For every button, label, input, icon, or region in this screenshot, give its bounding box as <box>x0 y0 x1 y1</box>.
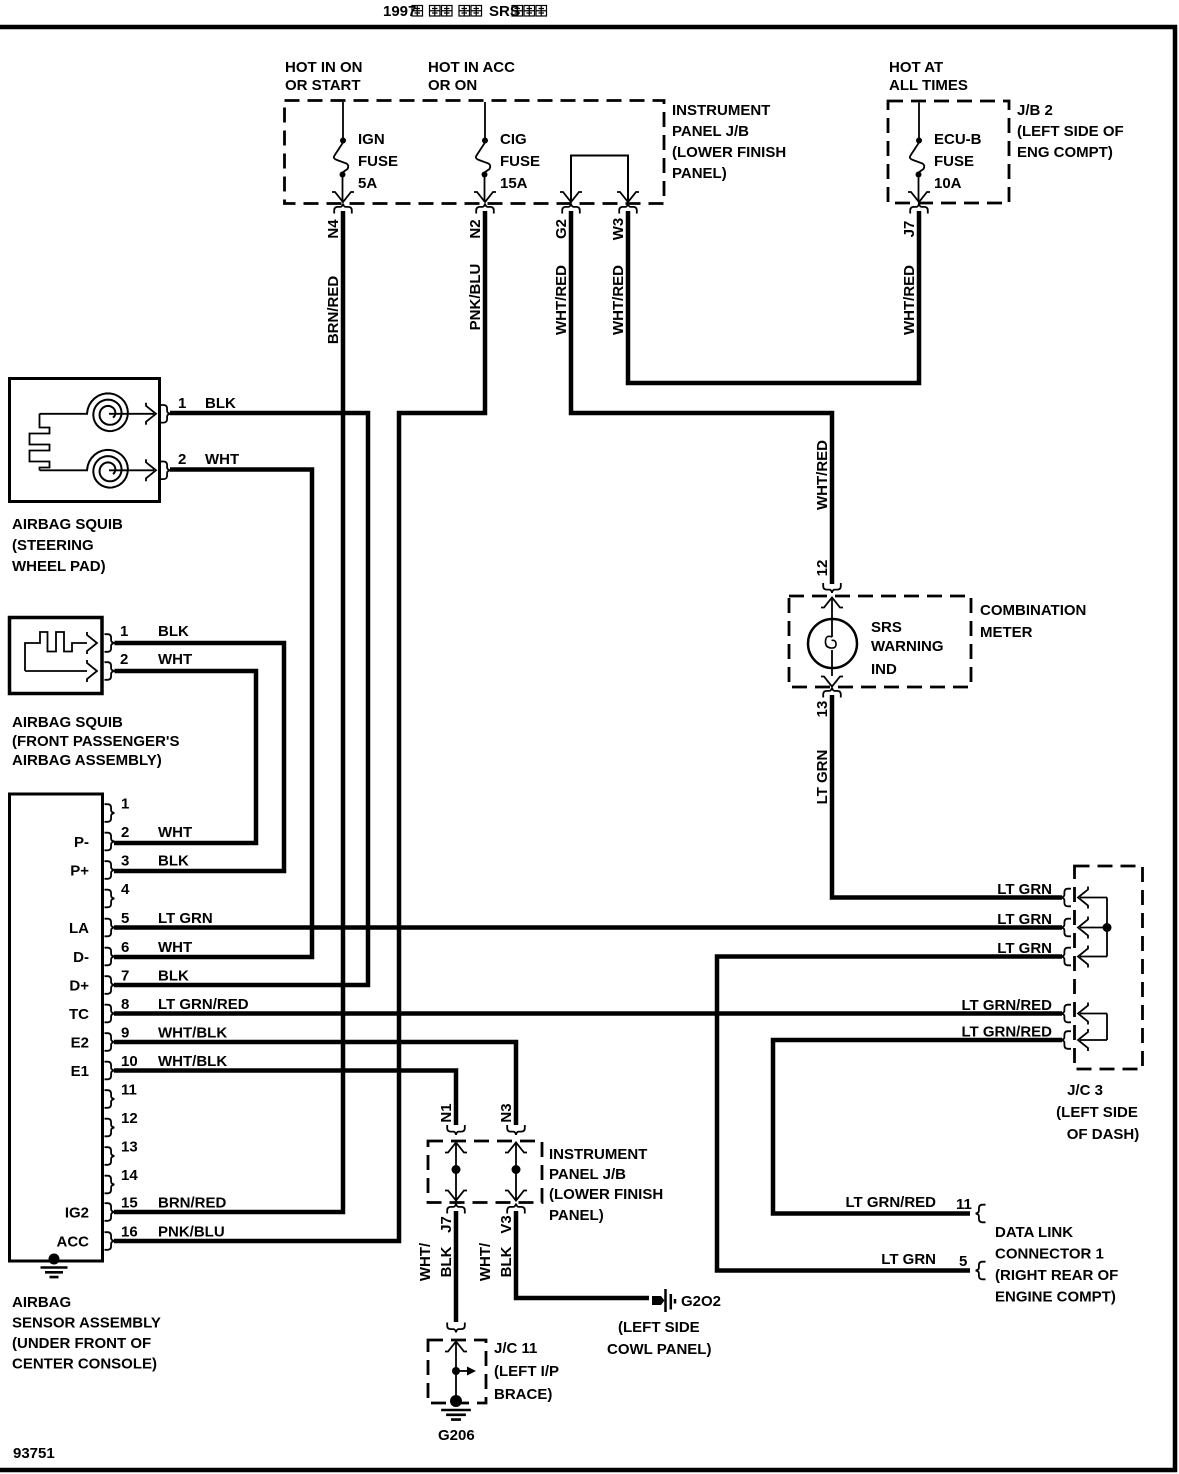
svg-text:BLK: BLK <box>438 1246 455 1277</box>
svg-text:WHT/: WHT/ <box>417 1242 434 1281</box>
svg-text:N2: N2 <box>467 219 484 238</box>
wire LT GRN/RED from J/C 3 to DLC1 pin 11 <box>773 1040 1062 1214</box>
svg-text:BLK: BLK <box>205 395 236 412</box>
sensor pin 5 wire LT GRN to J/C 3 <box>114 925 1062 930</box>
svg-text:WARNING: WARNING <box>871 638 944 655</box>
squib2 pin 2 connector <box>105 662 115 680</box>
svg-text:WHT: WHT <box>205 451 239 468</box>
connector V3 <box>507 1204 525 1214</box>
connector J7 lower <box>447 1204 465 1214</box>
J/C 3 connector LT GRN at y=897 <box>1061 889 1071 907</box>
svg-text:13: 13 <box>121 1139 138 1156</box>
svg-text:LT GRN: LT GRN <box>881 1251 936 1268</box>
svg-text:ENG COMPT): ENG COMPT) <box>1017 144 1113 161</box>
ground G206 <box>450 1395 462 1407</box>
J/C 3 connector LT GRN at y=927 <box>1061 919 1071 937</box>
svg-text:2: 2 <box>120 651 128 668</box>
svg-text:AIRBAG SQUIB: AIRBAG SQUIB <box>12 516 123 533</box>
component: AIRBAG SQUIB (FRONT PASSENGER) <box>10 618 103 694</box>
junction block: INSTRUMENT PANEL J/B (upper) <box>285 101 665 204</box>
svg-text:4: 4 <box>121 881 130 898</box>
connector G2 <box>562 204 580 214</box>
svg-text:7: 7 <box>121 968 129 985</box>
svg-text:WHT/BLK: WHT/BLK <box>158 1025 227 1042</box>
svg-text:OF DASH): OF DASH) <box>1067 1126 1140 1143</box>
svg-text:ACC: ACC <box>57 1234 90 1251</box>
wire BLK squib1 pin1 to sensor pin 7 <box>114 413 368 985</box>
svg-text:12: 12 <box>814 560 831 577</box>
svg-text:HOT AT: HOT AT <box>889 59 943 76</box>
svg-text:WHEEL PAD): WHEEL PAD) <box>12 558 106 575</box>
svg-text:IGN: IGN <box>358 131 385 148</box>
svg-text:OR ON: OR ON <box>428 77 477 94</box>
svg-text:WHT/BLK: WHT/BLK <box>158 1053 227 1070</box>
svg-text:TC: TC <box>69 1006 89 1023</box>
svg-text:5A: 5A <box>358 175 377 192</box>
wire WHT squib2 pin2 to sensor pin 2 <box>114 671 256 843</box>
svg-text:PANEL J/B: PANEL J/B <box>672 123 749 140</box>
svg-text:10: 10 <box>121 1053 138 1070</box>
fuse CIG FUSE 15A <box>484 102 486 138</box>
J/C 3 internal bus upper <box>1106 898 1108 957</box>
svg-text:11: 11 <box>121 1082 137 1099</box>
junction block J/B 2 <box>888 101 1009 203</box>
sensor pin 7 connector <box>105 976 115 994</box>
svg-text:WHT/RED: WHT/RED <box>553 265 570 335</box>
page border bottom <box>0 1468 1177 1473</box>
svg-text:LA: LA <box>69 920 89 937</box>
sensor pin 6 connector <box>105 948 115 966</box>
J/C 3 connector LT GRN at y=956 <box>1061 948 1071 966</box>
svg-text:HOT IN ON: HOT IN ON <box>285 59 363 76</box>
svg-text:ALL TIMES: ALL TIMES <box>889 77 968 94</box>
svg-text:ENGINE COMPT): ENGINE COMPT) <box>995 1289 1116 1306</box>
svg-text:G2: G2 <box>553 219 570 239</box>
svg-text:PNK/BLU: PNK/BLU <box>467 264 484 331</box>
svg-text:93751: 93751 <box>13 1445 55 1462</box>
svg-text:LT GRN: LT GRN <box>814 750 831 805</box>
svg-text:FUSE: FUSE <box>500 153 540 170</box>
page border top <box>0 25 1177 30</box>
svg-text:(LEFT SIDE: (LEFT SIDE <box>1056 1104 1138 1121</box>
svg-text:AIRBAG: AIRBAG <box>12 1294 71 1311</box>
svg-text:BLK: BLK <box>158 623 189 640</box>
SRS warning lamp <box>831 598 833 638</box>
svg-text:8: 8 <box>121 996 129 1013</box>
svg-text:6: 6 <box>121 939 129 956</box>
svg-text:(LEFT SIDE OF: (LEFT SIDE OF <box>1017 123 1124 140</box>
svg-text:J/B 2: J/B 2 <box>1017 102 1053 119</box>
sensor pin 8 wire LT GRN/RED to J/C 3 <box>114 1011 1062 1016</box>
svg-text:5: 5 <box>121 910 129 927</box>
svg-text:FUSE: FUSE <box>934 153 974 170</box>
svg-text:10A: 10A <box>934 175 962 192</box>
svg-text:(STEERING: (STEERING <box>12 537 94 554</box>
wire WHT/RED from G2 to combination meter pin 12 <box>571 211 832 584</box>
svg-text:N3: N3 <box>498 1103 515 1122</box>
svg-text:WHT/: WHT/ <box>477 1242 494 1281</box>
svg-text:N1: N1 <box>438 1103 455 1122</box>
wire BLK squib2 pin1 to sensor pin 3 <box>114 643 284 871</box>
sensor pin 4 connector <box>105 890 115 908</box>
svg-text:P-: P- <box>74 834 89 851</box>
wire WHT squib1 pin2 to sensor pin 6 <box>114 470 312 958</box>
svg-text:(UNDER FRONT OF: (UNDER FRONT OF <box>12 1335 151 1352</box>
J/C 11 internal junction <box>445 1342 467 1352</box>
wire LT GRN from J/C 3 to DLC1 pin 5 <box>717 957 1062 1271</box>
svg-text:COWL PANEL): COWL PANEL) <box>607 1341 711 1358</box>
J/C 3 connector LT GRN/RED at y=1013 <box>1061 1005 1071 1023</box>
svg-text:G206: G206 <box>438 1427 475 1444</box>
sensor pin 13 connector <box>105 1147 115 1165</box>
svg-text:(LEFT I/P: (LEFT I/P <box>494 1363 559 1380</box>
svg-text:E2: E2 <box>71 1035 89 1052</box>
svg-text:2: 2 <box>178 451 186 468</box>
svg-text:(LOWER FINISH: (LOWER FINISH <box>549 1186 663 1203</box>
svg-text:W3: W3 <box>610 218 627 241</box>
connector N4 <box>334 204 352 214</box>
sensor pin 11 connector <box>105 1090 115 1108</box>
svg-text:WHT: WHT <box>158 651 192 668</box>
J/C 3 connector LT GRN/RED at y=1040 <box>1061 1031 1071 1049</box>
svg-text:BRN/RED: BRN/RED <box>325 276 342 345</box>
connector W3 <box>619 204 637 214</box>
svg-text:P+: P+ <box>70 863 89 880</box>
svg-text:PANEL): PANEL) <box>672 165 727 182</box>
svg-text:11: 11 <box>956 1196 972 1213</box>
svg-text:WHT: WHT <box>158 939 192 956</box>
squib pin 1 connector <box>161 405 171 423</box>
svg-text:AIRBAG SQUIB: AIRBAG SQUIB <box>12 714 123 731</box>
svg-text:(RIGHT REAR OF: (RIGHT REAR OF <box>995 1267 1118 1284</box>
svg-text:ECU-B: ECU-B <box>934 131 982 148</box>
svg-text:IG2: IG2 <box>65 1205 89 1222</box>
svg-text:1: 1 <box>120 623 128 640</box>
wire PNK/BLU from N2 to sensor pin 16 <box>114 211 485 1241</box>
svg-text:(LEFT SIDE: (LEFT SIDE <box>618 1319 700 1336</box>
clockspring spiral coil 2 <box>87 450 128 488</box>
svg-text:LT GRN: LT GRN <box>158 910 213 927</box>
svg-text:2: 2 <box>121 824 129 841</box>
pin 1 arrow <box>109 413 154 415</box>
connector N3 <box>507 1125 525 1135</box>
svg-text:16: 16 <box>121 1224 138 1241</box>
page border right <box>1173 25 1178 1472</box>
squib connector plug symbol <box>30 414 50 471</box>
svg-text:BLK: BLK <box>158 853 189 870</box>
ground G202 (left side cowl panel) <box>652 1296 665 1305</box>
wire WHT/BLK from J7 to J/C 11 <box>454 1211 459 1322</box>
svg-text:G2O2: G2O2 <box>681 1293 721 1310</box>
svg-text:15: 15 <box>121 1195 138 1212</box>
svg-text:5: 5 <box>959 1253 967 1270</box>
svg-text:D-: D- <box>73 949 89 966</box>
svg-text:(LOWER FINISH: (LOWER FINISH <box>672 144 786 161</box>
svg-text:PANEL J/B: PANEL J/B <box>549 1166 626 1183</box>
svg-text:(FRONT PASSENGER'S: (FRONT PASSENGER'S <box>12 733 179 750</box>
wire to spiral coil 2 <box>40 469 89 471</box>
svg-text:CONNECTOR 1: CONNECTOR 1 <box>995 1246 1104 1263</box>
connector to J/C 11 <box>447 1323 465 1333</box>
svg-text:WHT/RED: WHT/RED <box>814 440 831 510</box>
svg-text:AIRBAG ASSEMBLY): AIRBAG ASSEMBLY) <box>12 752 162 769</box>
svg-text:OR START: OR START <box>285 77 361 94</box>
svg-text:INSTRUMENT: INSTRUMENT <box>549 1146 647 1163</box>
svg-text:9: 9 <box>121 1025 129 1042</box>
sensor pin 14 connector <box>105 1176 115 1194</box>
sensor pin 15 connector <box>105 1203 115 1221</box>
junction connector J/C 11 <box>428 1340 486 1403</box>
connector N2 <box>476 204 494 214</box>
sensor pin 12 connector <box>105 1119 115 1137</box>
wire BRN/RED from N4 to sensor pin 15 <box>114 211 343 1212</box>
J/C 3 internal bus lower <box>1106 1014 1108 1041</box>
svg-text:SRS: SRS <box>871 619 902 636</box>
junction block: INSTRUMENT PANEL J/B (lower) <box>428 1141 542 1203</box>
wire WHT/RED from W3 joining J7 <box>628 211 919 383</box>
svg-text:COMBINATION: COMBINATION <box>980 602 1086 619</box>
squib pin 2 connector <box>161 462 171 480</box>
svg-text:BRACE): BRACE) <box>494 1386 552 1403</box>
sensor pin 3 connector <box>105 861 115 879</box>
svg-text:BLK: BLK <box>158 968 189 985</box>
wire WHT/BLK from V3 to ground G202 <box>516 1211 649 1298</box>
svg-text:METER: METER <box>980 624 1033 641</box>
svg-text:J7: J7 <box>438 1216 455 1233</box>
wire LT GRN from meter pin 13 to J/C 3 <box>832 695 1062 898</box>
J/B internal junction at x=516 <box>505 1143 527 1153</box>
fuse IGN FUSE 5A <box>342 102 344 138</box>
svg-text:E1: E1 <box>71 1063 89 1080</box>
squib2 pin 1 connector <box>105 634 115 652</box>
svg-text:WHT/RED: WHT/RED <box>901 265 918 335</box>
sensor pin 9 wire WHT/BLK to connector N3 <box>114 1042 516 1125</box>
svg-text:PNK/BLU: PNK/BLU <box>158 1224 225 1241</box>
sensor pin 1 connector <box>105 804 115 822</box>
squib element square-wave symbol <box>25 632 87 671</box>
sensor pin 2 connector <box>105 833 115 851</box>
junction connector J/C 3 <box>1075 866 1143 1069</box>
svg-text:IND: IND <box>871 661 897 678</box>
svg-text:J/C 3: J/C 3 <box>1067 1082 1103 1099</box>
svg-text:15A: 15A <box>500 175 528 192</box>
clockspring spiral coil 1 <box>87 393 128 431</box>
svg-text:12: 12 <box>121 1110 138 1127</box>
svg-text:1: 1 <box>121 796 129 813</box>
sensor pin 16 connector <box>105 1232 115 1250</box>
sensor pin 8 connector <box>105 1005 115 1023</box>
svg-text:LT GRN: LT GRN <box>997 881 1052 898</box>
sensor pin 9 connector <box>105 1033 115 1051</box>
svg-text:J/C 11: J/C 11 <box>494 1340 537 1357</box>
svg-text:LT GRN/RED: LT GRN/RED <box>961 997 1052 1014</box>
svg-text:WHT/RED: WHT/RED <box>610 265 627 335</box>
svg-text:3: 3 <box>121 853 129 870</box>
sensor pin 10 wire WHT/BLK to connector N1 <box>114 1071 456 1126</box>
svg-text:1997: 1997 <box>383 3 416 20</box>
pin 2 arrow <box>109 469 154 471</box>
svg-text:INSTRUMENT: INSTRUMENT <box>672 102 770 119</box>
svg-text:D+: D+ <box>69 978 89 995</box>
svg-text:LT GRN/RED: LT GRN/RED <box>158 996 249 1013</box>
fuse ECU-B FUSE 10A <box>918 103 920 139</box>
svg-text:FUSE: FUSE <box>358 153 398 170</box>
svg-text:LT GRN/RED: LT GRN/RED <box>845 1194 936 1211</box>
connector pin 13 <box>823 688 841 698</box>
svg-text:J7: J7 <box>901 221 918 238</box>
svg-text:BLK: BLK <box>498 1246 515 1277</box>
svg-text:1: 1 <box>178 395 186 412</box>
svg-text:14: 14 <box>121 1167 138 1184</box>
sensor pin 5 connector <box>105 919 115 937</box>
svg-text:DATA LINK: DATA LINK <box>995 1224 1073 1241</box>
svg-text:N4: N4 <box>325 219 342 239</box>
svg-text:WHT: WHT <box>158 824 192 841</box>
svg-text:SENSOR ASSEMBLY: SENSOR ASSEMBLY <box>12 1315 161 1332</box>
sensor pin 10 connector <box>105 1062 115 1080</box>
svg-text:HOT IN ACC: HOT IN ACC <box>428 59 515 76</box>
svg-text:BRN/RED: BRN/RED <box>158 1195 227 1212</box>
svg-text:LT GRN: LT GRN <box>997 911 1052 928</box>
connector pin 12 <box>823 583 841 593</box>
svg-text:CIG: CIG <box>500 131 527 148</box>
connector J7 <box>910 204 928 214</box>
J/B internal junction at x=456 <box>445 1143 467 1153</box>
svg-text:PANEL): PANEL) <box>549 1207 604 1224</box>
svg-text:V3: V3 <box>498 1215 515 1233</box>
component: AIRBAG SENSOR ASSEMBLY <box>10 794 103 1261</box>
internal bus to G2 and W3 outputs <box>571 156 628 203</box>
component: AIRBAG SQUIB (STEERING WHEEL PAD) <box>10 379 160 502</box>
connector N1 <box>447 1125 465 1135</box>
wire to spiral coil 1 <box>40 413 89 415</box>
svg-text:13: 13 <box>814 701 831 718</box>
svg-text:CENTER CONSOLE): CENTER CONSOLE) <box>12 1356 157 1373</box>
component: COMBINATION METER <box>789 596 971 687</box>
ground at sensor assembly case <box>49 1254 60 1265</box>
